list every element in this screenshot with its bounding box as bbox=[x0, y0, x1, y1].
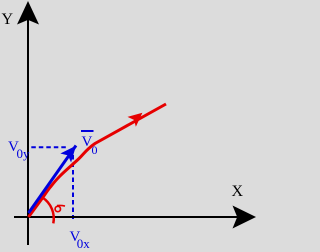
svg-text:Y: Y bbox=[2, 11, 14, 28]
svg-text:0: 0 bbox=[92, 143, 98, 157]
svg-text:0x: 0x bbox=[77, 236, 91, 251]
svg-text:0y: 0y bbox=[17, 146, 31, 161]
svg-text:X: X bbox=[232, 183, 244, 200]
